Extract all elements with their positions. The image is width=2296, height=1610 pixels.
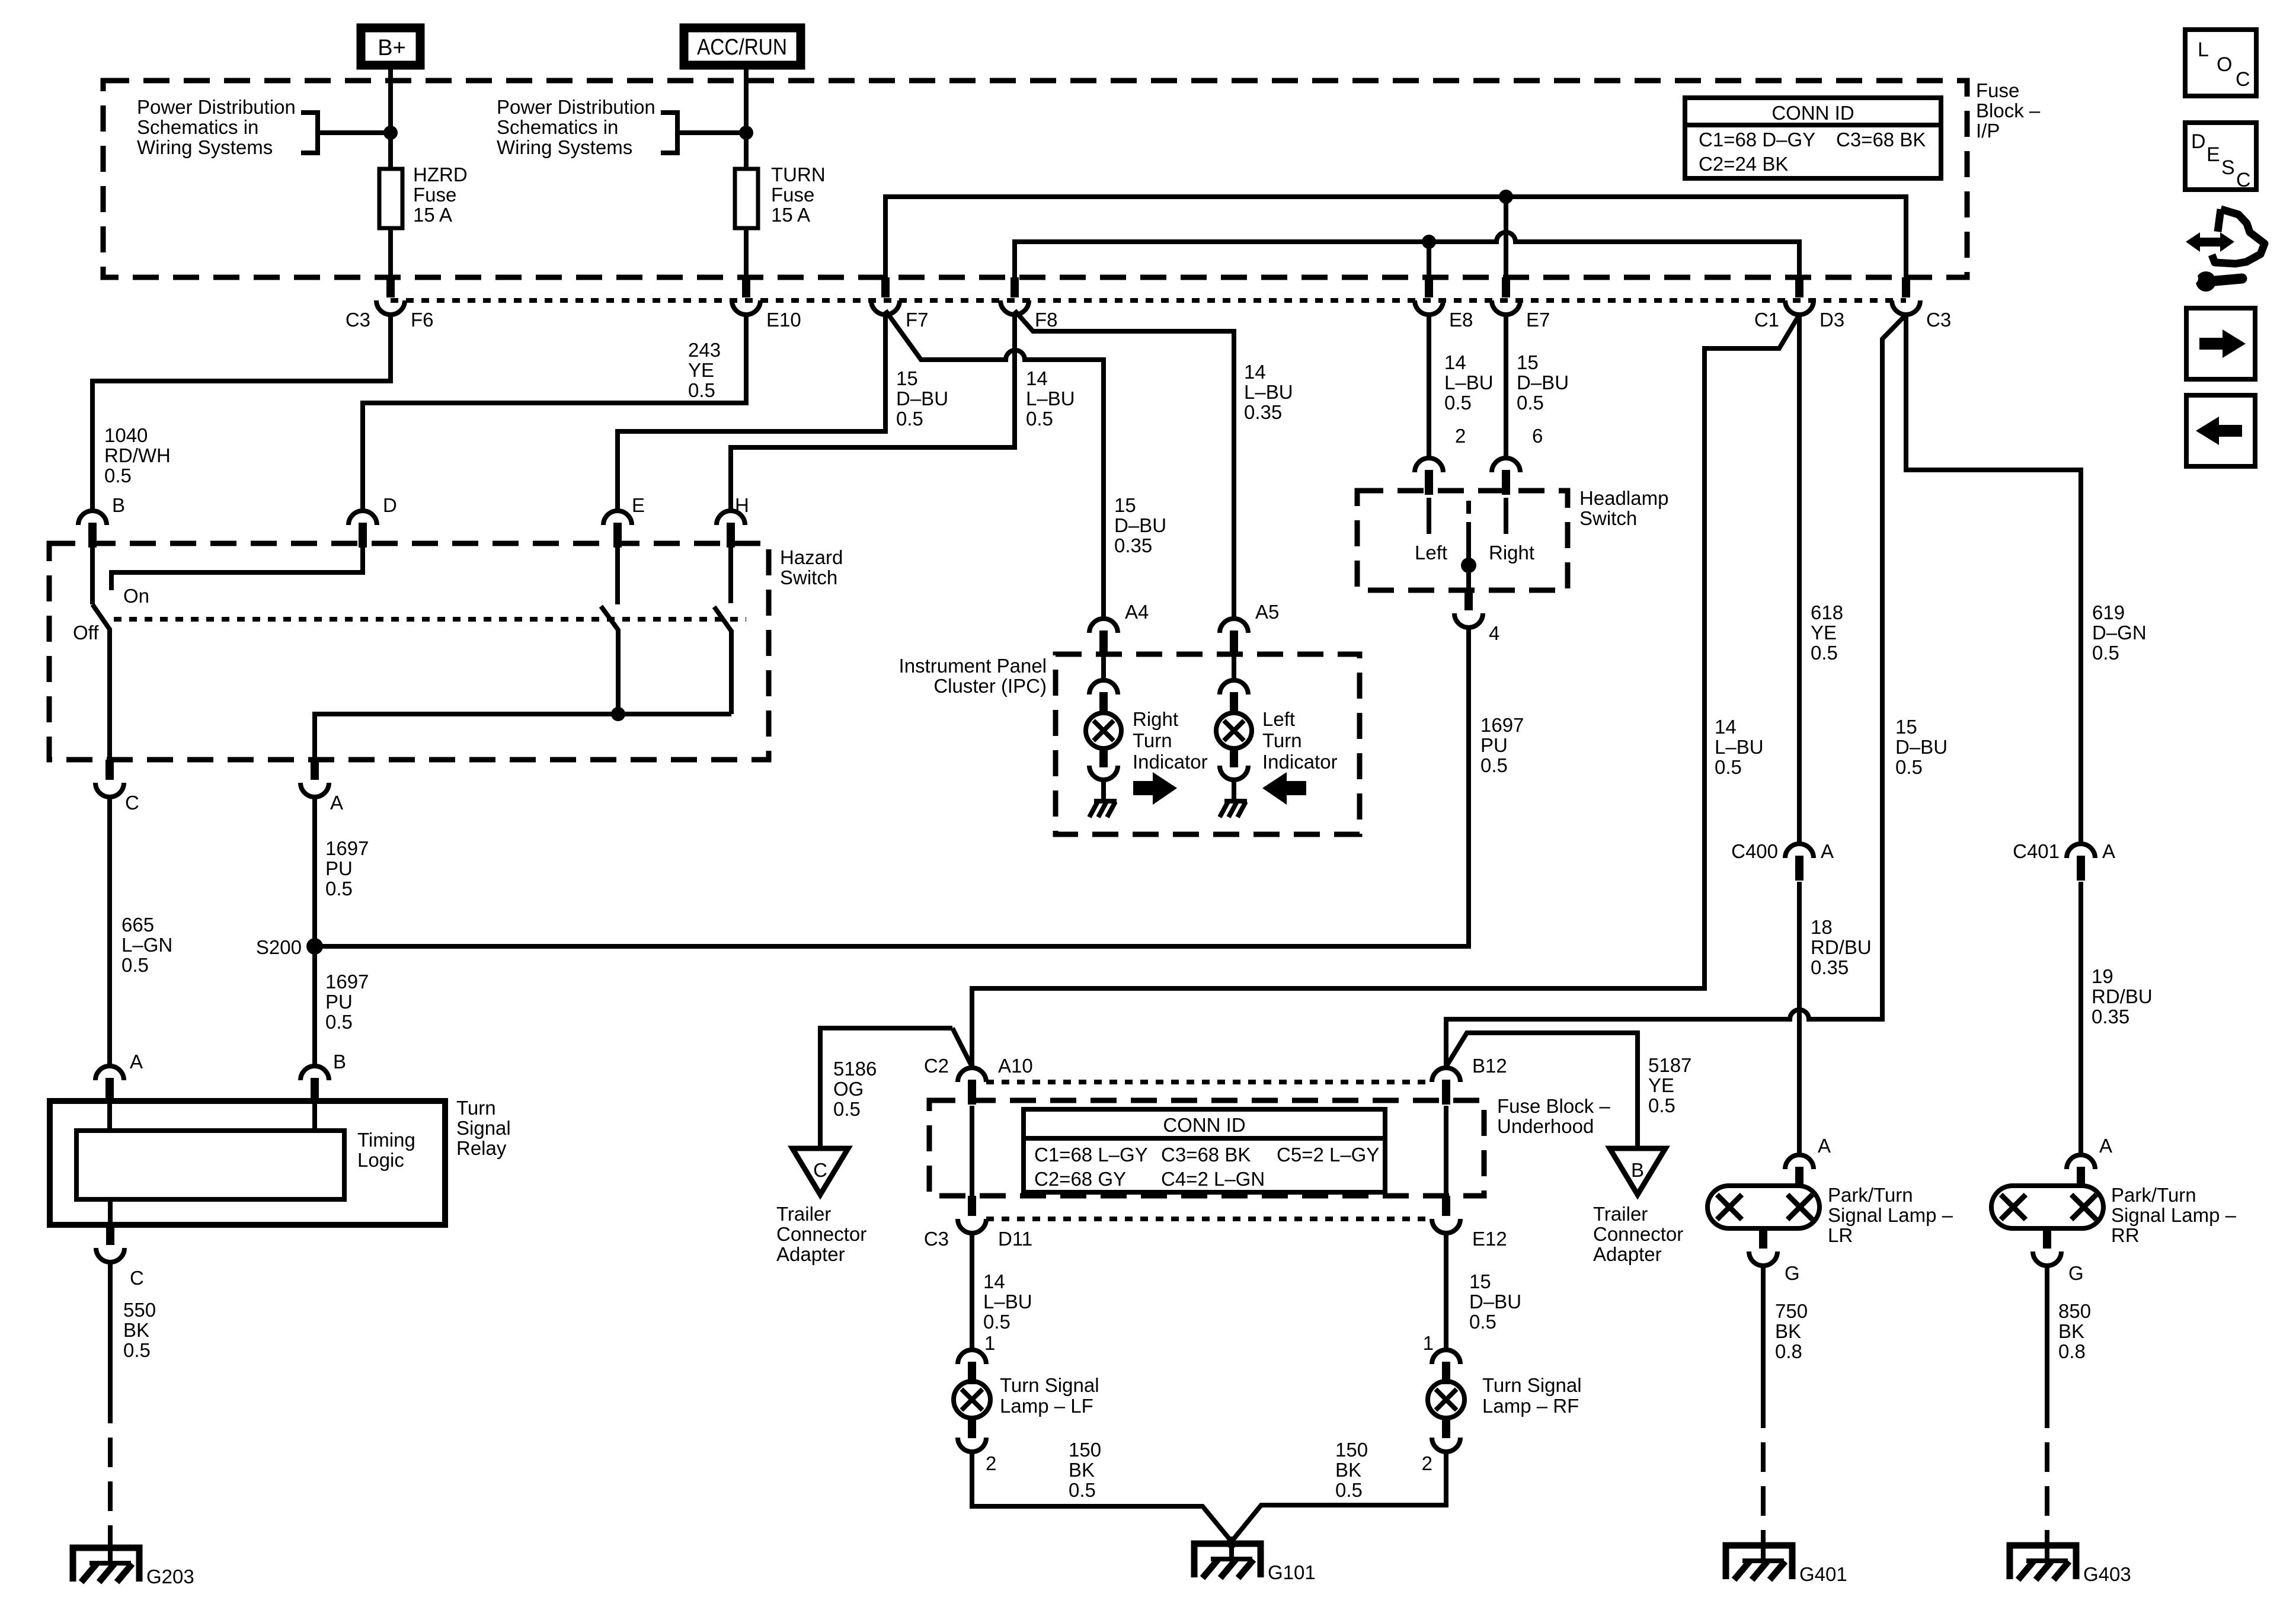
relay output wire bbox=[108, 1199, 113, 1225]
svg-text:0.5: 0.5 bbox=[688, 379, 715, 401]
svg-text:C1: C1 bbox=[1754, 309, 1779, 331]
svg-text:1697: 1697 bbox=[325, 837, 369, 859]
svg-text:A: A bbox=[1818, 1135, 1831, 1157]
connector A of park/turn lamp LR bbox=[1785, 1155, 1814, 1169]
svg-text:1: 1 bbox=[1423, 1332, 1434, 1354]
headlamp switch right contact bbox=[1504, 498, 1508, 534]
svg-text:Connector: Connector bbox=[1593, 1223, 1683, 1245]
wire B+ down to HZRD fuse bbox=[388, 69, 393, 169]
svg-text:L–BU: L–BU bbox=[983, 1291, 1032, 1313]
svg-text:0.5: 0.5 bbox=[1648, 1094, 1675, 1116]
svg-text:Underhood: Underhood bbox=[1497, 1115, 1594, 1137]
connector B12 bbox=[1432, 1068, 1460, 1082]
turn signal relay box bbox=[50, 1101, 445, 1225]
lamp right turn indicator bbox=[1086, 713, 1121, 748]
svg-text:2: 2 bbox=[986, 1452, 996, 1474]
IPC internal ground (right) bbox=[1094, 799, 1117, 804]
gang dotted line bbox=[114, 617, 746, 622]
wire E7 to headlamp pin 6 bbox=[1504, 315, 1508, 458]
svg-text:D11: D11 bbox=[998, 1228, 1032, 1250]
ground G401 bbox=[1726, 1545, 1792, 1579]
svg-text:0.5: 0.5 bbox=[1026, 408, 1053, 430]
wire RF lamp to G101 bbox=[1227, 1452, 1446, 1547]
svg-text:1040: 1040 bbox=[104, 424, 148, 446]
wire bus to C3 (upper) bbox=[885, 197, 1906, 277]
svg-text:18: 18 bbox=[1811, 916, 1833, 938]
svg-text:750: 750 bbox=[1775, 1300, 1808, 1322]
svg-text:C: C bbox=[2236, 68, 2250, 91]
connector 1 of lamp RF bbox=[1432, 1350, 1460, 1364]
wire to IPC ground (right) bbox=[1101, 780, 1106, 801]
wire C3 diagonal branch to B12 (15 D-BU) with hop over C400 wire bbox=[1446, 315, 1906, 1068]
connector D3 at fuse block I/P bbox=[1795, 277, 1803, 297]
junction dot levers bbox=[611, 707, 625, 721]
svg-text:2: 2 bbox=[1455, 425, 1466, 447]
connector G of park/turn lamp RR bbox=[2043, 1228, 2051, 1249]
ground G203 bbox=[73, 1548, 139, 1582]
junction dot on B+ wire bbox=[383, 126, 398, 140]
svg-text:C400: C400 bbox=[1731, 840, 1778, 862]
svg-text:Lamp – LF: Lamp – LF bbox=[1000, 1395, 1093, 1417]
svg-text:Switch: Switch bbox=[1579, 507, 1637, 529]
trailer adapter B triangle bbox=[1610, 1148, 1665, 1195]
svg-text:C: C bbox=[125, 792, 139, 814]
svg-text:0.5: 0.5 bbox=[121, 954, 149, 976]
svg-text:PU: PU bbox=[325, 857, 353, 879]
svg-text:B: B bbox=[112, 494, 125, 516]
svg-text:4: 4 bbox=[1489, 622, 1499, 644]
svg-text:L–BU: L–BU bbox=[1715, 736, 1764, 758]
svg-text:Fuse: Fuse bbox=[1976, 79, 2019, 101]
svg-text:Trailer: Trailer bbox=[1593, 1203, 1648, 1225]
svg-text:14: 14 bbox=[1444, 351, 1466, 373]
arrow left indicator bbox=[1262, 772, 1306, 805]
lamp turn signal LF bbox=[954, 1381, 990, 1418]
svg-text:5186: 5186 bbox=[833, 1058, 877, 1080]
svg-text:A: A bbox=[2102, 840, 2115, 862]
svg-text:D: D bbox=[2191, 130, 2206, 153]
lamp turn signal RF bbox=[1428, 1381, 1464, 1418]
fuse block underhood dashed box bbox=[929, 1100, 1484, 1196]
svg-text:L–BU: L–BU bbox=[1244, 381, 1293, 403]
IPC edge connector (left ind.) bbox=[1220, 680, 1248, 694]
svg-text:1697: 1697 bbox=[325, 971, 369, 993]
svg-text:B12: B12 bbox=[1472, 1055, 1507, 1077]
svg-text:0.5: 0.5 bbox=[1480, 754, 1508, 776]
wire D3 diagonal branch to A10 (14 L-BU) bbox=[972, 315, 1799, 1068]
connector row dotted line (I/P) bbox=[391, 298, 1906, 303]
note power distribution (right) bbox=[497, 96, 655, 158]
connector D into hazard switch bbox=[348, 511, 377, 525]
connector E into hazard switch bbox=[603, 511, 632, 525]
icon wrench/arrows bbox=[2186, 209, 2265, 292]
wire D11/E12 down to lamp RF bbox=[1444, 1233, 1448, 1350]
svg-text:G: G bbox=[1785, 1262, 1800, 1284]
svg-text:Signal: Signal bbox=[456, 1117, 511, 1139]
svg-text:Left: Left bbox=[1262, 708, 1295, 730]
svg-text:CONN ID: CONN ID bbox=[1163, 1114, 1245, 1136]
relay internal pin wires bbox=[107, 1103, 112, 1131]
wire bracket to B+ wire bbox=[318, 130, 391, 135]
svg-text:Signal Lamp –: Signal Lamp – bbox=[2111, 1204, 2237, 1226]
lamp left turn indicator bbox=[1216, 713, 1252, 748]
svg-text:A: A bbox=[2099, 1135, 2112, 1157]
svg-text:C: C bbox=[130, 1267, 144, 1289]
svg-text:14: 14 bbox=[1026, 367, 1048, 389]
cup below lamp LF bbox=[958, 1438, 986, 1452]
svg-text:0.5: 0.5 bbox=[2092, 642, 2119, 664]
connector A4 bbox=[1089, 619, 1118, 633]
svg-text:0.5: 0.5 bbox=[1444, 392, 1472, 414]
svg-text:C: C bbox=[2236, 169, 2251, 191]
wire lamp LR to ground (solid) bbox=[1761, 1266, 1766, 1398]
svg-text:BK: BK bbox=[1335, 1459, 1361, 1481]
svg-text:Lamp – RF: Lamp – RF bbox=[1482, 1395, 1579, 1417]
svg-text:150: 150 bbox=[1069, 1439, 1101, 1461]
svg-text:C401: C401 bbox=[2013, 840, 2060, 862]
svg-text:Turn Signal: Turn Signal bbox=[1482, 1374, 1582, 1396]
connector A5 bbox=[1220, 619, 1248, 633]
svg-text:G203: G203 bbox=[146, 1566, 194, 1587]
svg-text:TURN: TURN bbox=[771, 164, 826, 185]
ground G403 bbox=[2010, 1545, 2076, 1579]
svg-text:0.5: 0.5 bbox=[1069, 1479, 1096, 1501]
wire C401 to RR lamp bbox=[2078, 882, 2083, 1155]
svg-text:15 A: 15 A bbox=[771, 204, 810, 226]
svg-text:C: C bbox=[813, 1159, 827, 1181]
svg-text:1697: 1697 bbox=[1480, 714, 1524, 736]
svg-text:Fuse: Fuse bbox=[771, 184, 814, 206]
svg-text:0.5: 0.5 bbox=[1517, 392, 1544, 414]
connector F8 at fuse block I/P bbox=[1011, 277, 1019, 297]
svg-text:2: 2 bbox=[1422, 1452, 1432, 1474]
wire relay C to ground (dashed) bbox=[108, 1394, 113, 1541]
svg-text:0.35: 0.35 bbox=[1811, 956, 1849, 978]
fuse HZRD 15A bbox=[379, 169, 402, 228]
svg-text:G: G bbox=[2068, 1262, 2084, 1284]
svg-text:E: E bbox=[632, 494, 645, 516]
svg-text:0.5: 0.5 bbox=[104, 465, 132, 486]
hazard switch lever E bbox=[601, 606, 618, 714]
svg-text:C5=2 L–GY: C5=2 L–GY bbox=[1277, 1144, 1379, 1166]
connector 4 out of headlamp switch bbox=[1464, 590, 1473, 610]
svg-text:850: 850 bbox=[2058, 1300, 2091, 1322]
cup below lamp RF bbox=[1432, 1438, 1460, 1452]
svg-text:Logic: Logic bbox=[357, 1149, 404, 1171]
svg-text:PU: PU bbox=[325, 991, 353, 1013]
connector D11 (C3) bbox=[968, 1196, 976, 1216]
svg-text:0.35: 0.35 bbox=[1114, 534, 1152, 556]
svg-text:Adapter: Adapter bbox=[776, 1243, 845, 1265]
svg-text:PU: PU bbox=[1480, 734, 1508, 756]
svg-text:A: A bbox=[1821, 840, 1834, 862]
wire E8 to headlamp pin 2 bbox=[1427, 315, 1431, 458]
connector E7 at fuse block I/P bbox=[1502, 277, 1510, 297]
hazard switch: E pole stub bbox=[615, 536, 620, 604]
svg-text:150: 150 bbox=[1335, 1439, 1368, 1461]
wire HZRD fuse to connector F6 bbox=[388, 228, 393, 277]
svg-text:H: H bbox=[735, 494, 749, 516]
svg-text:G401: G401 bbox=[1799, 1563, 1847, 1585]
junction dot wiper bbox=[1461, 558, 1476, 573]
svg-text:5187: 5187 bbox=[1648, 1054, 1691, 1076]
svg-text:15: 15 bbox=[896, 367, 918, 389]
svg-text:C1=68 L–GY: C1=68 L–GY bbox=[1034, 1144, 1148, 1166]
wire A4 into IPC bbox=[1101, 654, 1106, 680]
wire S200 to headlamp pin 4 bbox=[315, 628, 1469, 946]
svg-text:Turn: Turn bbox=[456, 1097, 496, 1119]
svg-text:BK: BK bbox=[123, 1319, 149, 1341]
conn id table I/P bbox=[1685, 98, 1941, 178]
svg-text:D–BU: D–BU bbox=[1114, 514, 1166, 536]
wire hazard C to relay A bbox=[107, 797, 112, 1066]
wire D11/E12 down to lamp LF bbox=[970, 1233, 974, 1350]
svg-text:Off: Off bbox=[73, 622, 99, 644]
timing logic box bbox=[76, 1131, 344, 1199]
svg-text:Wiring Systems: Wiring Systems bbox=[137, 136, 273, 158]
lamp bottom pin (right) bbox=[1099, 748, 1108, 767]
svg-text:F7: F7 bbox=[906, 309, 929, 331]
connector A out of hazard switch bbox=[311, 760, 319, 780]
svg-text:D: D bbox=[383, 494, 397, 516]
svg-text:Headlamp: Headlamp bbox=[1579, 487, 1668, 509]
svg-text:0.5: 0.5 bbox=[896, 408, 923, 430]
svg-text:HZRD: HZRD bbox=[413, 164, 468, 185]
svg-text:0.8: 0.8 bbox=[2058, 1340, 2086, 1362]
svg-text:Fuse: Fuse bbox=[413, 184, 456, 206]
connector H into hazard switch bbox=[717, 511, 745, 525]
connector 2 into headlamp switch bbox=[1415, 458, 1443, 472]
wire F8 to hazard switch H bbox=[731, 315, 1015, 511]
connector C401 bbox=[2067, 844, 2095, 858]
svg-text:BK: BK bbox=[1775, 1320, 1801, 1342]
svg-text:0.5: 0.5 bbox=[983, 1311, 1011, 1333]
svg-text:0.5: 0.5 bbox=[1335, 1479, 1363, 1501]
connector A into relay bbox=[95, 1066, 124, 1080]
connector F6 at fuse block I/P bbox=[386, 277, 395, 297]
arrow right indicator bbox=[1133, 772, 1177, 805]
svg-text:RD/BU: RD/BU bbox=[1811, 936, 1872, 958]
wire ACC/RUN down to TURN fuse bbox=[744, 69, 749, 169]
svg-text:BK: BK bbox=[2058, 1320, 2084, 1342]
IPC dashed box bbox=[1056, 654, 1360, 834]
svg-text:I/P: I/P bbox=[1976, 120, 2000, 142]
svg-text:619: 619 bbox=[2092, 601, 2125, 623]
svg-text:LR: LR bbox=[1828, 1224, 1853, 1246]
icon LOC box bbox=[2185, 30, 2256, 96]
park/turn signal lamp LR bbox=[1707, 1186, 1819, 1228]
svg-text:Adapter: Adapter bbox=[1593, 1243, 1662, 1265]
hazard switch lever H bbox=[714, 607, 731, 714]
bracket left bbox=[301, 113, 318, 153]
svg-text:243: 243 bbox=[688, 339, 721, 361]
note power distribution (left) bbox=[137, 96, 296, 158]
connector B into hazard switch bbox=[78, 511, 107, 525]
hazard switch dashed box bbox=[49, 543, 769, 760]
wire F7 diagonal to A4 with hop over F8 wire bbox=[885, 311, 1104, 619]
svg-text:On: On bbox=[123, 585, 149, 607]
svg-text:G403: G403 bbox=[2083, 1563, 2131, 1585]
headlamp switch dashed box bbox=[1357, 491, 1568, 590]
headlamp switch left contact bbox=[1427, 498, 1431, 534]
svg-text:15: 15 bbox=[1517, 351, 1539, 373]
svg-text:S: S bbox=[2221, 156, 2235, 179]
svg-text:6: 6 bbox=[1532, 425, 1543, 447]
svg-text:Wiring Systems: Wiring Systems bbox=[497, 136, 632, 158]
svg-text:Timing: Timing bbox=[357, 1129, 415, 1151]
wire A10 to trailer adapter C (5186 OG) bbox=[820, 1028, 972, 1148]
svg-text:Indicator: Indicator bbox=[1133, 751, 1208, 773]
svg-text:618: 618 bbox=[1811, 601, 1843, 623]
wire F6 to hazard switch B bbox=[92, 315, 391, 511]
connector row dotted (underhood top) bbox=[986, 1080, 1432, 1084]
svg-text:15: 15 bbox=[1114, 494, 1136, 516]
wire A5 into IPC bbox=[1232, 654, 1236, 680]
svg-text:F8: F8 bbox=[1035, 309, 1058, 331]
svg-text:Turn: Turn bbox=[1262, 729, 1302, 751]
wire bracket to ACC wire bbox=[677, 130, 746, 135]
wire LF lamp to G101 bbox=[972, 1452, 1236, 1547]
svg-text:Signal Lamp –: Signal Lamp – bbox=[1828, 1204, 1953, 1226]
svg-text:S200: S200 bbox=[256, 936, 302, 958]
svg-text:A: A bbox=[130, 1051, 143, 1073]
svg-text:C2=24 BK: C2=24 BK bbox=[1699, 153, 1788, 175]
svg-text:L–BU: L–BU bbox=[1444, 372, 1494, 393]
svg-text:E: E bbox=[2207, 143, 2220, 166]
conn id table underhood bbox=[1024, 1109, 1385, 1192]
svg-text:F6: F6 bbox=[411, 309, 434, 331]
svg-text:E12: E12 bbox=[1472, 1228, 1507, 1250]
lamp bottom pin (left) bbox=[1230, 748, 1238, 767]
svg-text:C3=68 BK: C3=68 BK bbox=[1836, 129, 1926, 151]
svg-text:665: 665 bbox=[121, 914, 154, 936]
wire C3 to C401 (619 D-GN) bbox=[1906, 315, 2081, 844]
IPC internal ground (left) bbox=[1224, 799, 1247, 804]
svg-text:14: 14 bbox=[1715, 716, 1737, 738]
connector C out of hazard switch bbox=[105, 760, 114, 780]
svg-text:0.5: 0.5 bbox=[325, 1011, 353, 1033]
svg-text:Instrument Panel: Instrument Panel bbox=[899, 655, 1047, 677]
svg-text:G101: G101 bbox=[1268, 1561, 1316, 1583]
svg-text:Schematics in: Schematics in bbox=[497, 116, 618, 138]
connector C3 at fuse block I/P bbox=[1902, 277, 1910, 297]
connector G of park/turn lamp LR bbox=[1759, 1228, 1767, 1249]
junction S200 bbox=[306, 938, 323, 955]
svg-text:E8: E8 bbox=[1449, 309, 1473, 331]
wire E7 drop bbox=[1504, 197, 1508, 277]
hazard switch: B pole wire bbox=[90, 536, 95, 604]
svg-text:0.5: 0.5 bbox=[123, 1339, 151, 1361]
svg-text:Block –: Block – bbox=[1976, 100, 2041, 121]
svg-text:15: 15 bbox=[1895, 716, 1917, 738]
connector E12 bbox=[1442, 1196, 1450, 1216]
connector A10 (C2) bbox=[958, 1068, 986, 1082]
svg-text:Left: Left bbox=[1415, 542, 1447, 564]
svg-text:B+: B+ bbox=[378, 36, 406, 60]
svg-text:L: L bbox=[2198, 39, 2209, 61]
bracket right bbox=[661, 113, 677, 153]
svg-text:Power Distribution: Power Distribution bbox=[137, 96, 296, 118]
svg-text:Schematics in: Schematics in bbox=[137, 116, 258, 138]
svg-text:D3: D3 bbox=[1819, 309, 1844, 331]
icon left arrow box bbox=[2186, 395, 2255, 466]
svg-text:Relay: Relay bbox=[456, 1137, 507, 1159]
junction dot at E7 tap bbox=[1499, 190, 1513, 204]
svg-text:Indicator: Indicator bbox=[1262, 751, 1338, 773]
hazard switch: H pole stub bbox=[728, 536, 733, 603]
wire E10 to hazard switch D bbox=[363, 315, 746, 511]
wire D3 straight down to C400 bbox=[1797, 315, 1802, 844]
svg-text:Switch: Switch bbox=[780, 566, 837, 588]
connector F7 at fuse block I/P bbox=[881, 277, 890, 297]
svg-text:YE: YE bbox=[688, 359, 714, 381]
svg-text:RR: RR bbox=[2111, 1224, 2140, 1246]
svg-text:YE: YE bbox=[1811, 622, 1837, 644]
headlamp switch wiper (solid) bbox=[1466, 524, 1471, 590]
cup below left lamp bbox=[1220, 766, 1248, 780]
connector E10 at fuse block I/P bbox=[742, 277, 750, 297]
wire lamp RR to ground (dashed) bbox=[2045, 1398, 2049, 1538]
headlamp switch wiper (dashed) bbox=[1466, 501, 1471, 524]
svg-text:L–BU: L–BU bbox=[1026, 388, 1075, 409]
svg-text:0.5: 0.5 bbox=[1895, 756, 1923, 778]
svg-text:15 A: 15 A bbox=[413, 204, 452, 226]
svg-text:0.35: 0.35 bbox=[2092, 1006, 2129, 1028]
wire hazard A to relay B through S200 bbox=[312, 797, 317, 1066]
connector row dotted (underhood bottom) bbox=[986, 1217, 1432, 1221]
svg-text:B: B bbox=[333, 1051, 346, 1073]
fuse TURN 15A bbox=[735, 169, 758, 228]
park/turn signal lamp RR bbox=[1991, 1186, 2103, 1228]
connector 1 of lamp LF bbox=[958, 1350, 986, 1364]
svg-text:C3=68 BK: C3=68 BK bbox=[1161, 1144, 1251, 1166]
svg-text:Park/Turn: Park/Turn bbox=[1828, 1184, 1913, 1206]
svg-text:Right: Right bbox=[1133, 708, 1178, 730]
svg-text:Trailer: Trailer bbox=[776, 1203, 831, 1225]
pass-through wires in underhood block bbox=[970, 1106, 974, 1196]
svg-text:L–GN: L–GN bbox=[121, 934, 172, 956]
svg-text:C2=68 GY: C2=68 GY bbox=[1034, 1168, 1126, 1190]
lamp RF bottom pin bbox=[1442, 1417, 1450, 1438]
svg-text:C4=2 L–GN: C4=2 L–GN bbox=[1161, 1168, 1265, 1190]
svg-text:0.5: 0.5 bbox=[1469, 1311, 1496, 1333]
svg-text:14: 14 bbox=[983, 1270, 1005, 1292]
svg-text:550: 550 bbox=[123, 1299, 156, 1321]
icon DESC box bbox=[2185, 123, 2256, 191]
icon right arrow box bbox=[2186, 308, 2255, 379]
svg-text:A5: A5 bbox=[1255, 601, 1279, 623]
svg-text:Hazard: Hazard bbox=[780, 546, 843, 568]
svg-text:A4: A4 bbox=[1125, 601, 1149, 623]
wire lamp RR to ground (solid) bbox=[2045, 1266, 2049, 1398]
svg-text:D–BU: D–BU bbox=[1517, 372, 1569, 393]
svg-text:Power Distribution: Power Distribution bbox=[497, 96, 655, 118]
svg-text:D–GN: D–GN bbox=[2092, 622, 2147, 644]
connector C out of relay bbox=[106, 1225, 114, 1245]
lamp LF bottom pin bbox=[968, 1417, 976, 1438]
wire bus to D3 (lower) with hop over E7 bbox=[1015, 232, 1799, 277]
svg-text:19: 19 bbox=[2092, 965, 2113, 987]
connector B into relay bbox=[300, 1066, 329, 1080]
svg-text:A: A bbox=[330, 792, 343, 814]
connector 6 into headlamp switch bbox=[1492, 458, 1520, 472]
svg-text:YE: YE bbox=[1648, 1074, 1674, 1096]
wire C400 to LR lamp bbox=[1797, 882, 1802, 1155]
svg-text:CONN ID: CONN ID bbox=[1771, 102, 1854, 124]
wire relay C to ground (solid) bbox=[108, 1262, 113, 1394]
node ACC/RUN ignition terminal bbox=[684, 28, 801, 65]
svg-text:0.8: 0.8 bbox=[1775, 1340, 1802, 1362]
